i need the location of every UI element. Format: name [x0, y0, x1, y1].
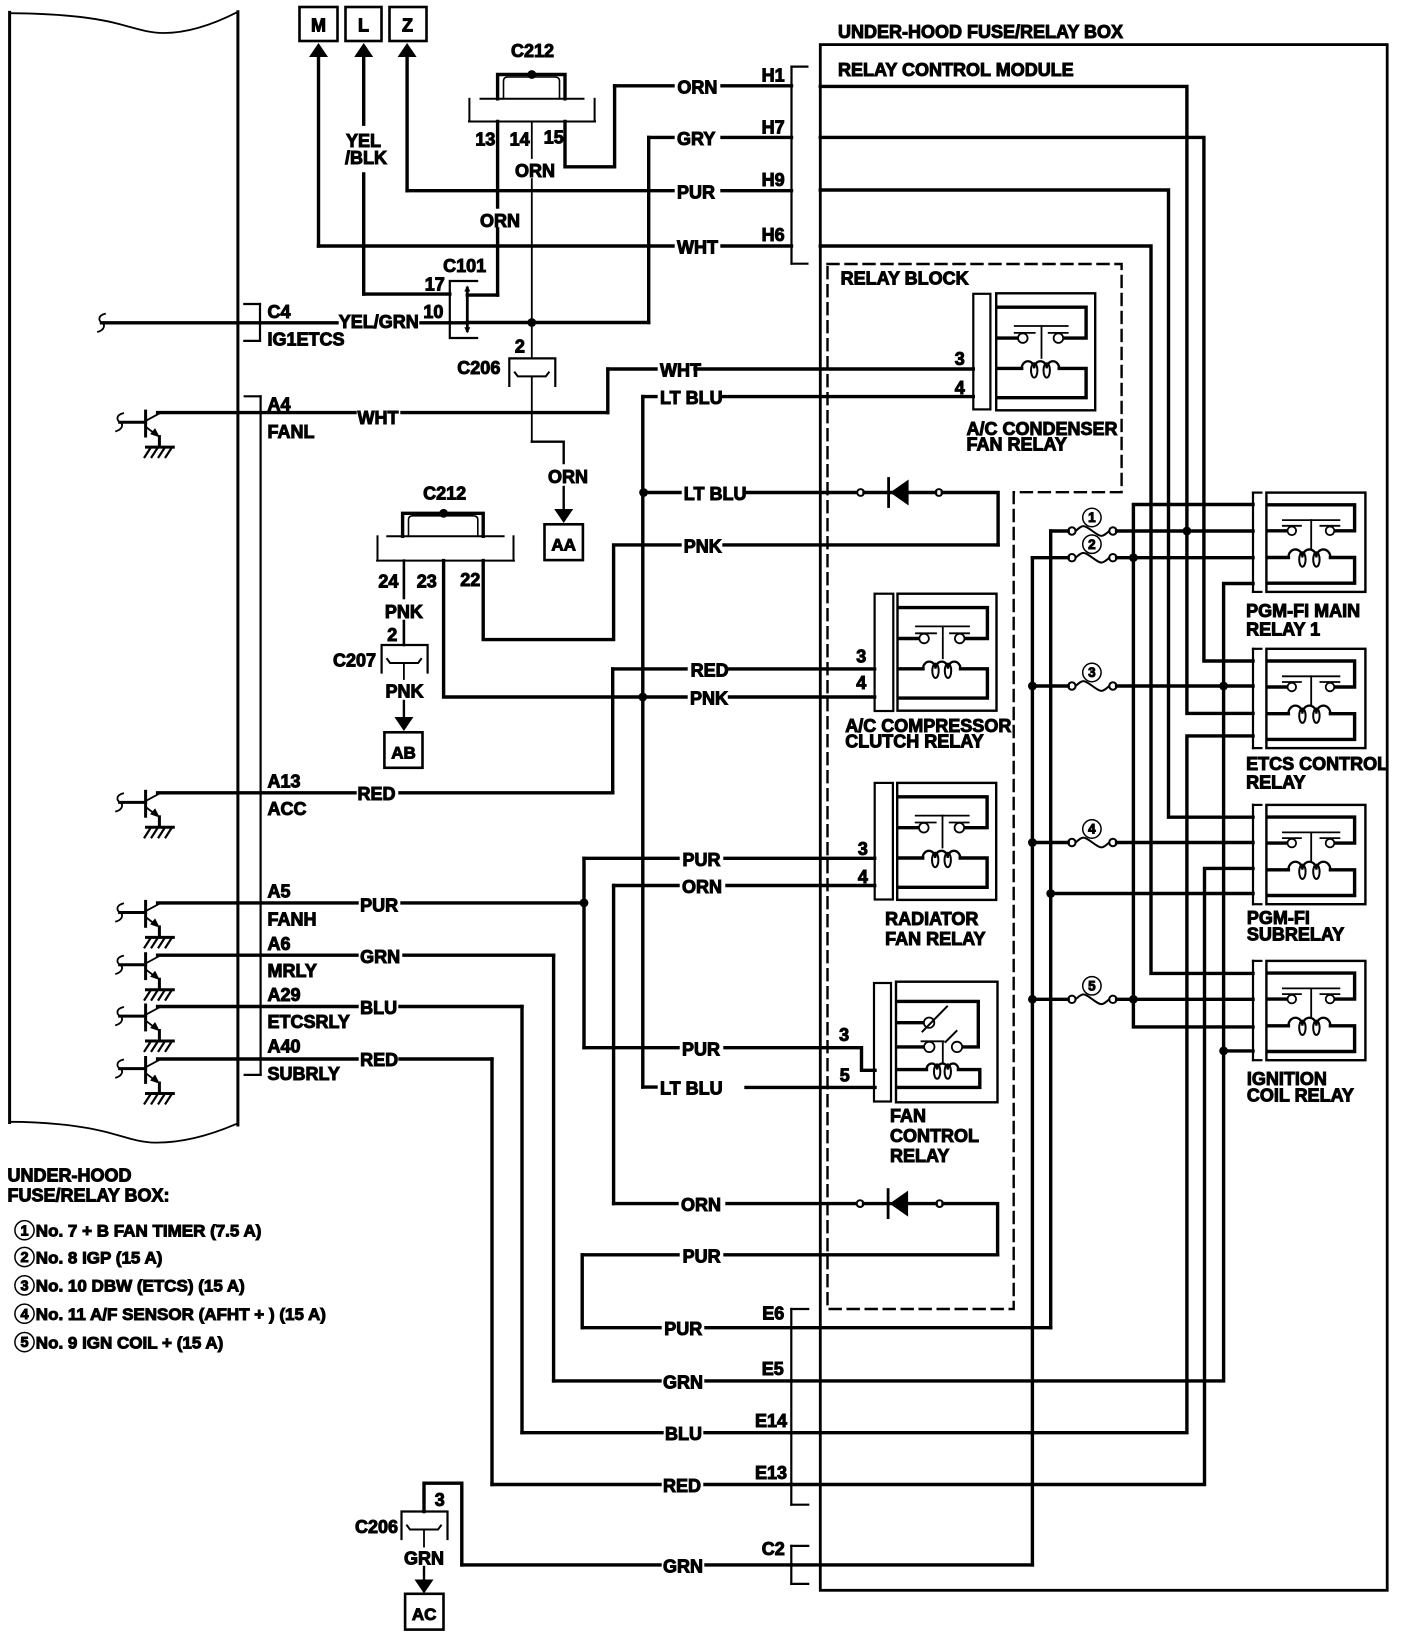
relay ETCS control coil — [1267, 712, 1288, 715]
node PNK / LT BLU column junction — [638, 693, 647, 702]
svg-text:3: 3 — [856, 647, 866, 667]
relay PGM-FI subrelay body — [1266, 805, 1365, 904]
legend item 3 — [15, 1276, 34, 1295]
svg-text:1: 1 — [1088, 510, 1096, 525]
svg-text:PUR: PUR — [664, 1319, 702, 1339]
svg-text:3: 3 — [839, 1025, 849, 1045]
legend item 2 — [15, 1247, 34, 1266]
relay A/C compressor clutch coil — [899, 667, 924, 670]
wire diode D1 return loop to PNK — [942, 493, 998, 545]
fuse number label 4 — [1083, 820, 1101, 838]
wire ORN to AA — [531, 377, 533, 442]
svg-text:No. 9 IGN COIL + (15 A): No. 9 IGN COIL + (15 A) — [36, 1333, 224, 1352]
svg-text:SUBRLY: SUBRLY — [268, 1064, 340, 1084]
svg-text:ACC: ACC — [268, 799, 307, 819]
ground — [147, 1040, 174, 1043]
wire BLU down to E14 — [520, 1007, 523, 1433]
relay A/C compressor clutch internal wiring — [899, 608, 988, 639]
svg-text:No. 10 DBW (ETCS) (15 A): No. 10 DBW (ETCS) (15 A) — [36, 1277, 245, 1296]
wire GRY to H7 — [649, 136, 673, 139]
wire fuse5 to ignition coil relay — [1032, 998, 1068, 1001]
svg-text:24: 24 — [378, 572, 398, 592]
svg-text:4: 4 — [1088, 822, 1096, 837]
node C212 pin14 junction — [527, 70, 536, 79]
wire WHT riser to condenser relay pin3 — [606, 369, 609, 413]
relay ETCS control switch contacts — [1283, 675, 1340, 677]
svg-text:5: 5 — [1088, 979, 1096, 994]
svg-text:5: 5 — [20, 1335, 28, 1351]
svg-text:C2: C2 — [762, 1539, 785, 1559]
svg-text:RED: RED — [358, 784, 396, 804]
svg-text:Z: Z — [402, 16, 413, 36]
svg-text:22: 22 — [460, 570, 480, 590]
svg-text:WHT: WHT — [660, 361, 701, 381]
svg-text:13: 13 — [475, 129, 495, 149]
wire to M (arrow) — [309, 43, 328, 57]
svg-text:C207: C207 — [333, 651, 376, 671]
svg-text:RELAY 1: RELAY 1 — [1246, 620, 1320, 640]
fuse number label 5 — [1083, 977, 1101, 995]
svg-text:PNK: PNK — [684, 536, 722, 556]
wire radiator relay pin3 PUR — [584, 857, 678, 860]
svg-text:A29: A29 — [268, 985, 301, 1005]
svg-text:RED: RED — [691, 660, 729, 680]
wire C212 pin23 PNK to compressor relay pin4 — [444, 561, 686, 697]
fuse number label 3 — [1083, 663, 1101, 681]
svg-text:2: 2 — [20, 1250, 28, 1266]
relay PGM-FI main 1 coil — [1267, 556, 1288, 559]
terminal box AA — [545, 524, 583, 560]
relay A/C condenser fan internal wiring — [997, 307, 1086, 338]
svg-text:UNDER-HOOD: UNDER-HOOD — [8, 1165, 132, 1185]
svg-text:ORN: ORN — [681, 1195, 721, 1215]
bracket E6/E5/E14/E13 — [790, 1309, 792, 1505]
wire PUR to E6 — [582, 1326, 660, 1329]
svg-text:PUR: PUR — [683, 1246, 721, 1266]
svg-text:C206: C206 — [355, 1517, 398, 1537]
bracket ETCS control relay — [1252, 649, 1254, 748]
wire C212 upper loop — [498, 75, 565, 99]
connector C207 symbol — [382, 645, 428, 673]
relay PGM-FI main 1 switch contacts — [1283, 519, 1340, 521]
transistor Q-ACC — [144, 791, 147, 816]
wire PUR down to E6 — [581, 1255, 584, 1328]
bracket A/C compressor clutch relay — [875, 594, 894, 711]
svg-text:FAN RELAY: FAN RELAY — [885, 929, 985, 949]
svg-text:GRN: GRN — [360, 947, 400, 967]
svg-text:C101: C101 — [443, 256, 486, 276]
wire H9 inside module — [820, 190, 1253, 817]
svg-text:3: 3 — [1088, 665, 1096, 680]
svg-text:H1: H1 — [762, 66, 785, 86]
wire RED down to E13 — [490, 1059, 493, 1485]
wire fuse2 to PGM-FI main relay 1 coil — [1032, 556, 1068, 559]
legend item 4 — [15, 1304, 34, 1323]
relay PGM-FI subrelay internal wiring — [1267, 817, 1354, 843]
svg-text:ETCS CONTROL: ETCS CONTROL — [1246, 754, 1388, 774]
svg-text:17: 17 — [425, 275, 445, 295]
node pin10/pin14 junction — [527, 318, 536, 327]
connector C206 lower symbol — [402, 1512, 448, 1540]
wire fuse1 to PGM-FI main relay 1 — [1051, 529, 1069, 532]
wire GRN to E5 — [554, 1379, 660, 1382]
wire ORN diode feed — [614, 1202, 677, 1205]
node PUR junction — [580, 899, 589, 908]
wire BLU to E14 — [522, 1431, 662, 1434]
terminal box AC — [405, 1594, 443, 1630]
svg-text:RED: RED — [360, 1050, 398, 1070]
svg-text:GRN: GRN — [404, 1548, 444, 1568]
relay radiator fan switch contacts — [916, 815, 969, 817]
transistor Q-FANL — [144, 411, 147, 436]
wire v9 (ETCS relay coil- to E14) — [791, 736, 1253, 1433]
wire RED to E13 — [492, 1483, 660, 1486]
wire H1 inside module — [820, 86, 1253, 713]
transistor Q-MRLY — [144, 954, 147, 979]
svg-text:H9: H9 — [762, 170, 785, 190]
relay ignition coil internal wiring — [1267, 973, 1354, 999]
fuse No.9 IGN COIL — [1068, 996, 1075, 1003]
relay PGM-FI subrelay switch contacts — [1283, 831, 1340, 833]
svg-text:FAN: FAN — [890, 1106, 926, 1126]
wire condenser relay pin3 WHT — [608, 367, 656, 370]
svg-text:No. 7 + B FAN TIMER (7.5 A): No. 7 + B FAN TIMER (7.5 A) — [36, 1222, 262, 1241]
wire PUR to H9 (from Z) — [407, 189, 673, 192]
bracket fan control relay — [874, 983, 891, 1102]
transistor Q-SUBRLY — [144, 1058, 147, 1083]
svg-text:15: 15 — [544, 128, 564, 148]
legend item 1 — [15, 1221, 34, 1240]
relay A/C condenser fan body — [996, 293, 1095, 410]
bracket C2 — [790, 1546, 792, 1584]
wire GRN to C2 via C206 — [424, 1483, 462, 1565]
wire subrelay coil feed from E13 — [791, 868, 1253, 1484]
wire GRN to AC — [423, 1531, 425, 1547]
wire C101 pin17 row — [364, 292, 450, 295]
wire PNK to AB — [403, 663, 405, 679]
svg-text:PUR: PUR — [360, 896, 398, 916]
svg-text:BLU: BLU — [360, 998, 397, 1018]
relay ETCS control internal wiring — [1267, 661, 1354, 687]
svg-text:4: 4 — [20, 1307, 28, 1323]
svg-text:BLU: BLU — [665, 1424, 702, 1444]
svg-text:PUR: PUR — [683, 850, 721, 870]
fuse number label 1 — [1083, 508, 1101, 526]
svg-text:RELAY: RELAY — [890, 1146, 949, 1166]
bracket C4 — [259, 304, 261, 341]
svg-text:A40: A40 — [268, 1037, 301, 1057]
wire fuse4 to PGM-FI subrelay — [1032, 841, 1068, 844]
wire v3 (fuse2 branch to main relay top / ignition coil) — [1133, 505, 1253, 1027]
relay PGM-FI main 1 body — [1266, 493, 1365, 592]
svg-text:5: 5 — [840, 1066, 850, 1086]
relay radiator fan coil — [898, 856, 923, 859]
svg-text:FANH: FANH — [268, 910, 317, 930]
svg-text:FUSE/RELAY BOX:: FUSE/RELAY BOX: — [8, 1185, 170, 1205]
wire PUR diode return — [582, 1253, 678, 1256]
svg-text:E13: E13 — [755, 1463, 787, 1483]
svg-text:UNDER-HOOD FUSE/RELAY BOX: UNDER-HOOD FUSE/RELAY BOX — [838, 22, 1123, 42]
svg-text:GRY: GRY — [677, 129, 715, 149]
wire ignition relay coil- branch — [1224, 1049, 1253, 1052]
wire fuse3 to ETCS control relay — [1032, 684, 1068, 687]
svg-text:PNK: PNK — [385, 602, 423, 622]
fuse No.10 DBW ETCS — [1068, 682, 1075, 689]
svg-text:ORN: ORN — [682, 877, 722, 897]
wire C212 pin13 ORN — [496, 122, 499, 208]
svg-text:RELAY: RELAY — [1246, 772, 1305, 792]
svg-text:A13: A13 — [268, 772, 301, 792]
wire WHT to H6 (from M) — [319, 244, 674, 247]
wire v8 (main relay1 coil- to E5) — [791, 584, 1253, 1381]
relay A/C condenser fan switch contacts — [1015, 325, 1068, 327]
transistor Q-FANH — [144, 901, 147, 926]
wire C212 lower loop — [403, 513, 484, 536]
terminal box M — [300, 7, 338, 41]
svg-text:AA: AA — [551, 536, 576, 555]
relay ETCS control body — [1266, 649, 1365, 748]
relay PGM-FI subrelay coil — [1267, 868, 1288, 871]
wire radiator relay pin4 ORN — [614, 884, 678, 887]
svg-text:PGM-FI MAIN: PGM-FI MAIN — [1246, 601, 1360, 621]
svg-text:WHT: WHT — [677, 238, 718, 258]
wire diode D2 return loop to PUR — [943, 1204, 998, 1255]
svg-text:No. 11 A/F SENSOR (AFHT + ) (1: No. 11 A/F SENSOR (AFHT + ) (15 A) — [36, 1305, 326, 1324]
svg-text:ORN: ORN — [677, 77, 717, 97]
svg-text:1: 1 — [20, 1223, 28, 1239]
relay A/C compressor clutch switch contacts — [916, 625, 969, 627]
svg-text:RADIATOR: RADIATOR — [885, 909, 978, 929]
svg-text:LT BLU: LT BLU — [660, 1079, 723, 1099]
svg-text:3: 3 — [858, 839, 868, 859]
diode D1 (A/C) — [857, 489, 864, 496]
wire RED riser to compressor relay pin3 — [611, 669, 614, 793]
bracket ignition coil relay — [1252, 961, 1254, 1060]
wire fan control relay pin5 LT BLU — [643, 1085, 656, 1088]
relay fan control coil — [897, 1068, 927, 1071]
connector C206 upper symbol — [509, 358, 555, 386]
ground — [147, 1092, 174, 1095]
svg-text:10: 10 — [423, 302, 443, 322]
bracket A/C condenser fan relay — [973, 294, 990, 410]
relay ignition coil coil — [1267, 1024, 1288, 1027]
svg-text:ETCSRLY: ETCSRLY — [268, 1012, 350, 1032]
svg-text:AB: AB — [391, 743, 416, 762]
svg-text:A5: A5 — [268, 881, 291, 901]
svg-text:/BLK: /BLK — [345, 148, 387, 168]
ground — [147, 446, 174, 449]
fuse No.8 IGP — [1068, 554, 1075, 561]
svg-text:C212: C212 — [511, 41, 554, 61]
relay A/C condenser fan coil — [997, 367, 1022, 370]
wire E6 row inside box — [791, 1326, 1050, 1329]
relay fan control switch 1 — [897, 1021, 923, 1024]
wire to L YEL/BLK (arrow) — [354, 43, 373, 57]
svg-text:LT BLU: LT BLU — [684, 484, 747, 504]
wire GRY riser to C101 pin10 — [647, 137, 650, 322]
terminal box L — [346, 7, 382, 41]
svg-text:4: 4 — [856, 673, 866, 693]
svg-text:E6: E6 — [762, 1303, 784, 1323]
svg-text:23: 23 — [417, 572, 437, 592]
svg-text:2: 2 — [1088, 537, 1096, 552]
ground — [147, 936, 174, 939]
svg-text:14: 14 — [510, 129, 530, 149]
svg-text:AC: AC — [412, 1605, 437, 1624]
wire C212 pin15 to H1 ORN — [565, 86, 615, 167]
svg-text:2: 2 — [387, 625, 397, 645]
wire subrelay coil- to v2 — [1051, 892, 1253, 895]
svg-text:LT BLU: LT BLU — [660, 388, 723, 408]
transistor Q-ETCSRLY — [144, 1005, 147, 1030]
RELAY BLOCK dashed outline — [828, 264, 1122, 1309]
wire C212 pin22 PNK riser — [483, 545, 680, 640]
svg-text:PUR: PUR — [682, 1039, 720, 1059]
relay ignition coil body — [1266, 961, 1365, 1060]
wire LT BLU column (condenser pin4 to fan control pin5) — [641, 397, 644, 1088]
relay A/C compressor clutch body — [898, 594, 997, 711]
wire H6 inside module — [820, 246, 1253, 973]
wire C2 row inside box — [791, 1563, 1032, 1566]
svg-text:GRN: GRN — [663, 1372, 703, 1392]
svg-text:H7: H7 — [762, 118, 785, 138]
legend item 5 — [15, 1333, 34, 1352]
bracket PGM-FI subrelay — [1252, 805, 1254, 904]
svg-text:PNK: PNK — [690, 689, 728, 709]
svg-text:4: 4 — [955, 378, 965, 398]
svg-text:CLUTCH RELAY: CLUTCH RELAY — [845, 731, 983, 751]
svg-text:H6: H6 — [762, 225, 785, 245]
svg-text:COIL RELAY: COIL RELAY — [1247, 1086, 1354, 1106]
fuse No.7 +B FAN TIMER — [1068, 527, 1075, 534]
svg-text:E14: E14 — [755, 1411, 787, 1431]
ground — [147, 988, 174, 991]
svg-text:RELAY BLOCK: RELAY BLOCK — [841, 269, 969, 289]
wire fuse feed v1 (fuse2 to C2) — [1031, 558, 1034, 1565]
wire H7 inside module — [820, 137, 1253, 661]
bracket H1/H7/H9/H6 — [790, 67, 792, 264]
fuse number label 2 — [1083, 535, 1101, 553]
svg-text:RELAY CONTROL MODULE: RELAY CONTROL MODULE — [838, 60, 1074, 80]
svg-text:C212: C212 — [423, 483, 466, 503]
diode D2 (fan) — [857, 1200, 864, 1207]
wire to Z (arrow) from PUR row — [398, 43, 417, 57]
svg-text:M: M — [311, 16, 326, 36]
node C212 pin23 junction — [439, 509, 448, 518]
svg-text:PNK: PNK — [385, 682, 423, 702]
wire condenser relay pin4 LT BLU — [643, 395, 656, 398]
wire C212 pin24 PNK to C207 — [403, 561, 406, 598]
wire C212 pin14 ORN (thin) — [531, 122, 533, 159]
svg-text:4: 4 — [858, 867, 868, 887]
svg-text:ORN: ORN — [480, 211, 520, 231]
svg-text:C4: C4 — [268, 302, 291, 322]
svg-text:SUBRELAY: SUBRELAY — [1247, 925, 1344, 945]
left ECM/PCM panel (torn edges) — [10, 12, 238, 33]
svg-text:CONTROL: CONTROL — [890, 1126, 979, 1146]
bracket A — [260, 396, 262, 1075]
svg-text:3: 3 — [435, 1490, 445, 1510]
svg-text:3: 3 — [20, 1279, 28, 1295]
svg-text:IG1ETCS: IG1ETCS — [268, 330, 345, 350]
svg-text:L: L — [358, 16, 369, 36]
svg-text:MRLY: MRLY — [268, 961, 317, 981]
bracket radiator fan relay — [875, 783, 893, 900]
relay fan control switch 2 — [897, 1045, 923, 1048]
svg-text:ORN: ORN — [515, 161, 555, 181]
fuse No.11 A/F SENSOR — [1068, 839, 1075, 846]
wire fuse feed v2 (fuse1 to E6) — [1049, 531, 1052, 1328]
svg-text:2: 2 — [515, 337, 525, 357]
svg-text:FANL: FANL — [268, 422, 315, 442]
svg-text:A6: A6 — [268, 934, 291, 954]
svg-text:ORN: ORN — [548, 467, 588, 487]
svg-text:C206: C206 — [457, 358, 500, 378]
bracket PGM-FI main relay 1 — [1252, 493, 1254, 592]
svg-text:No. 8 IGP (15 A): No. 8 IGP (15 A) — [36, 1248, 163, 1267]
relay ignition coil switch contacts — [1283, 987, 1340, 989]
svg-text:YEL/GRN: YEL/GRN — [339, 312, 419, 332]
relay fan control body — [896, 982, 998, 1103]
ground — [147, 826, 174, 829]
terminal box AB — [384, 732, 422, 768]
relay PGM-FI main 1 internal wiring — [1267, 505, 1354, 531]
wire GRN down to E5 — [552, 955, 555, 1381]
relay radiator fan internal wiring — [898, 797, 987, 828]
relay radiator fan body — [897, 783, 996, 900]
wire ORN to H1 — [615, 84, 673, 87]
svg-text:RED: RED — [663, 1476, 701, 1496]
wire C4 IG1ETCS YEL/GRN — [102, 321, 338, 324]
wire C101 pin10 row — [450, 321, 468, 324]
svg-text:FAN RELAY: FAN RELAY — [967, 434, 1067, 454]
wire compressor relay pin3 RED — [613, 667, 686, 670]
relay fan control internal wiring — [897, 1001, 978, 1047]
wire fan control relay pin3 PUR — [584, 1046, 678, 1049]
terminal box Z — [390, 7, 427, 41]
svg-text:3: 3 — [955, 349, 965, 369]
svg-text:PUR: PUR — [677, 182, 715, 202]
svg-text:GRN: GRN — [663, 1556, 703, 1576]
svg-text:E5: E5 — [762, 1359, 784, 1379]
wire LT BLU diode feed — [644, 491, 680, 494]
svg-text:WHT: WHT — [358, 408, 399, 428]
